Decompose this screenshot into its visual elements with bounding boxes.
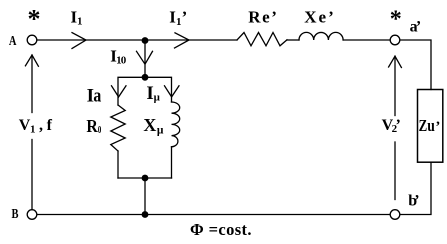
svg-text:Ia: Ia xyxy=(87,85,102,106)
wire Xe' to a' xyxy=(343,39,390,41)
arrow V1 up xyxy=(25,55,38,66)
arrow I1 xyxy=(72,33,86,49)
arrow I1' xyxy=(175,33,190,48)
wire top rail A to resistor xyxy=(37,39,237,41)
wire shunt to bottom rail xyxy=(144,178,146,211)
svg-text:V2’: V2’ xyxy=(382,117,401,135)
node parallel bottom xyxy=(142,175,149,182)
terminal B xyxy=(27,210,37,220)
svg-text:Φ =cost.: Φ =cost. xyxy=(190,220,252,239)
wire shunt vertical I10 xyxy=(144,44,146,75)
resistor Re' xyxy=(237,33,287,46)
arrow I10 down xyxy=(137,51,153,64)
svg-text:Zu’: Zu’ xyxy=(419,116,441,135)
resistor R0 vertical xyxy=(111,105,125,151)
arrow Imu down xyxy=(165,86,180,97)
svg-text:V1 , f: V1 , f xyxy=(19,117,53,135)
wire parallel top bar xyxy=(118,77,172,105)
wire between Re' and Xe' xyxy=(287,39,299,41)
wire a' to right corner xyxy=(400,40,431,90)
inductor Xmu vertical xyxy=(172,102,180,147)
svg-text:Xe’: Xe’ xyxy=(304,8,334,27)
arrow Ia down xyxy=(112,86,127,97)
terminal A xyxy=(27,35,37,45)
wire V1 line upper xyxy=(31,55,33,113)
svg-text:B: B xyxy=(12,207,19,222)
wire below Xmu xyxy=(171,147,173,178)
wire V1 line lower xyxy=(31,140,33,210)
node junction bottom xyxy=(142,211,149,218)
svg-text:a’: a’ xyxy=(410,19,422,36)
bottom rail wire xyxy=(37,214,389,216)
node junction top xyxy=(142,37,149,44)
svg-text:*: * xyxy=(390,7,402,33)
wire below R0 xyxy=(117,151,119,178)
node shunt split xyxy=(142,74,149,81)
wire V2' line upper xyxy=(394,56,396,115)
wire parallel bottom bar xyxy=(118,177,172,179)
svg-text:Re’: Re’ xyxy=(248,8,277,27)
svg-text:*: * xyxy=(28,5,41,34)
wire V2' line lower xyxy=(394,142,396,200)
terminal b' xyxy=(390,210,400,220)
svg-text:A: A xyxy=(9,34,17,49)
load impedance Zu' box xyxy=(418,90,443,163)
svg-text:b’: b’ xyxy=(408,193,419,210)
wire Zu' bottom to b' xyxy=(400,162,431,214)
inductor Xe' xyxy=(299,32,343,40)
arrow V2' up xyxy=(389,56,402,67)
terminal a' xyxy=(390,35,400,45)
